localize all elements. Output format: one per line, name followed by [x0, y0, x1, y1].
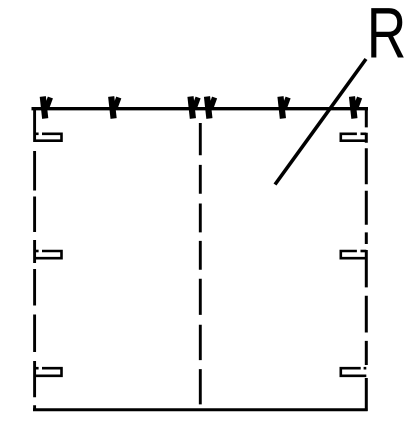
left tab 1 — [35, 134, 62, 141]
right edge (dashed) — [365, 108, 368, 411]
left edge (dashed) — [33, 107, 36, 411]
right tab 1 — [341, 134, 367, 141]
right tab 2 — [341, 251, 367, 258]
stitch mark 2 — [111, 97, 119, 119]
stitch mark 3 — [191, 97, 199, 119]
bottom edge — [33, 408, 368, 411]
stitch mark 4 — [207, 97, 215, 119]
svg-text:R: R — [367, 0, 407, 73]
left tab 3 — [35, 368, 62, 376]
right tab 3 — [341, 368, 367, 376]
left tab 2 — [35, 251, 62, 258]
stitch mark 6 — [352, 97, 360, 119]
leader line — [275, 59, 366, 185]
stitch mark 5 — [281, 97, 289, 119]
stitch mark 1 — [43, 97, 51, 119]
center fold line (dashed) — [199, 123, 202, 404]
top edge — [32, 107, 369, 110]
